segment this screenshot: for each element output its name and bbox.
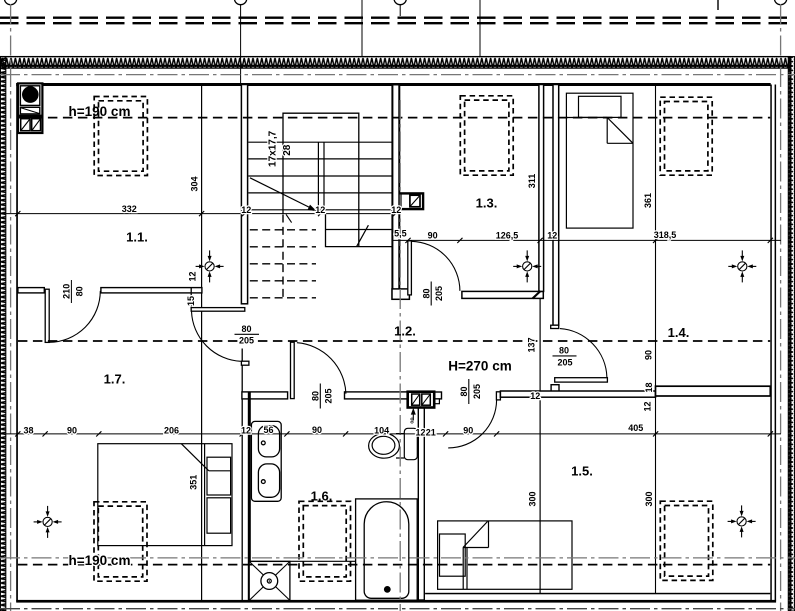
wall between 1.4 and 1.5 [656,386,771,396]
skylight room 1.5 [660,501,713,580]
door label 80/205 (1.7) [235,324,260,346]
svg-text:90: 90 [428,230,438,240]
bottom wall outer line [16,600,776,603]
svg-text:361: 361 [643,193,653,208]
room 1.4 west wall end cap [551,325,559,328]
svg-text:126,5: 126,5 [496,230,519,240]
svg-text:90: 90 [644,350,654,360]
dimension lines [1,211,781,437]
svg-text:104: 104 [374,425,389,435]
WC [369,428,418,459]
svg-text:12: 12 [643,401,653,411]
skylight room 1.3 [460,96,513,175]
bottom wall inner line (right part) [425,593,770,595]
door label 210/80 (1.1) [62,280,85,303]
svg-text:205: 205 [472,384,482,399]
svg-text:205: 205 [239,335,254,345]
dimension line y433.9 [1,433,781,435]
dashed line h=190 top [18,117,770,119]
room 1.3 right wall [539,85,544,292]
svg-text:318,5: 318,5 [654,230,677,240]
skylight room 1.7 [94,502,147,581]
svg-text:405: 405 [628,423,643,433]
door 1.5 jamb [496,392,500,400]
svg-text:1.7.: 1.7. [104,372,126,387]
axis vertical 3 [780,4,782,611]
stair center rail [317,142,319,213]
roof window symbol room 1.5 [728,505,756,537]
roof outline dashed double line [0,0,795,83]
bed room 1.4 [566,93,633,228]
stair break line [357,225,369,246]
door 1.7 landing stub [241,361,249,365]
svg-text:332: 332 [122,204,137,214]
hatched exterior wall band right [788,57,794,611]
svg-text:90: 90 [67,425,77,435]
svg-text:12: 12 [241,205,251,215]
svg-text:351: 351 [189,475,199,490]
svg-text:80: 80 [75,286,85,296]
door 1.1 leaf [45,289,49,342]
svg-text:1.5.: 1.5. [571,464,593,479]
bathroom north wall west piece [242,392,288,399]
skylight room 1.4 [660,97,712,175]
bed room 1.7 [98,444,232,546]
chimney block [18,83,42,133]
door 1.6 leaf [291,342,295,398]
svg-text:311: 311 [527,174,537,189]
bathroom north wall east piece [345,392,408,399]
svg-text:300: 300 [527,491,537,506]
stairwell left wall [241,85,247,304]
svg-text:h=190 cm: h=190 cm [69,104,131,119]
svg-text:205: 205 [323,388,333,403]
door 1.1 swing arc [49,291,100,342]
doors [45,241,607,448]
svg-text:12: 12 [530,391,540,401]
stairwell right wall [392,85,399,299]
door label 80/205 (1.6) [311,384,334,409]
grid tick [717,0,719,10]
svg-text:205: 205 [434,286,444,301]
svg-text:56: 56 [263,425,273,435]
dim extension line 1.7/1.6 [241,349,243,601]
svg-text:304: 304 [190,176,200,191]
wall between corridor and room 1.3 [462,291,543,298]
svg-text:80: 80 [311,391,321,401]
svg-text:12: 12 [188,271,198,281]
right wall outer line [775,85,777,601]
svg-text:1.3.: 1.3. [476,196,498,211]
door 1.4 bottom stub [551,385,559,393]
stair dashed center line [282,215,284,301]
svg-text:12: 12 [415,427,425,437]
svg-text:300: 300 [644,491,654,506]
stair well landing outline [283,113,359,246]
corridor south wall east [500,391,655,397]
corridor wall stub step [434,399,439,404]
bathtub [356,499,418,600]
svg-text:5,5: 5,5 [394,228,407,238]
svg-text:15: 15 [186,296,196,306]
door label 80/205 (1.5) [459,379,482,404]
svg-text:17x17,7: 17x17,7 [268,130,279,167]
dimension line y240.4 [393,239,781,241]
stair dashed treads lower flight [250,230,316,298]
top wall line [16,83,771,86]
stairwell right wall corner box [392,289,409,299]
bathroom east wall [418,408,424,600]
room 1.4 west wall [553,85,559,326]
svg-text:12: 12 [391,205,401,215]
stair treads upper flight [248,142,391,210]
dashed line middle [18,340,770,342]
dashed line h=190 bottom [18,564,770,566]
hatched exterior wall band left [0,57,5,611]
svg-text:H=270 cm: H=270 cm [448,359,511,374]
grid bubble A1 [4,0,16,5]
svg-text:12: 12 [315,205,325,215]
svg-text:1.4.: 1.4. [668,325,690,340]
roof window symbols [34,250,757,538]
door 1.5 swing arc [448,400,496,448]
wall connector at x191 [190,288,192,311]
door 1.3 leaf [408,241,412,295]
ventilation shaft room 1.3 [400,193,423,209]
svg-text:h=190 cm: h=190 cm [69,553,131,568]
svg-text:28: 28 [282,144,293,156]
bed room 1.5 [438,521,572,589]
svg-text:90: 90 [312,425,322,435]
svg-text:12: 12 [241,426,251,436]
roof skylights (double dashed) [94,96,713,581]
dimension ticks [15,211,773,437]
svg-text:137: 137 [527,337,537,352]
door label 80/205 (1.3) [422,282,445,306]
door 1.7 leaf [191,308,245,312]
svg-text:38: 38 [23,425,33,435]
axis vertical 2 [399,100,401,611]
stair lower right box [326,214,392,247]
stair direction arrow [250,178,313,209]
room 1.1 south wall right piece [101,288,202,293]
dim extension line x540 [539,291,541,593]
svg-text:12: 12 [547,231,557,241]
skylight room 1.1 [94,97,147,176]
svg-text:1.2.: 1.2. [394,324,416,339]
shower edge line [249,560,355,562]
vent arrow [412,413,414,421]
corridor wall stub right of vent [434,392,441,399]
axis vertical 1 [10,4,12,611]
right wall inner line [770,85,772,601]
svg-text:80: 80 [241,324,251,334]
roof window symbol room 1.7 [34,506,62,538]
grid tick [479,0,481,57]
door 1.3 swing arc [412,241,460,291]
roof window symbol room 1.4 [728,250,756,282]
double washbasin [251,421,281,501]
door 1.6 swing arc [297,343,346,394]
svg-text:18: 18 [644,382,654,392]
svg-text:80: 80 [422,288,432,298]
dim extension line x655.5 [655,84,657,593]
door 1.4 swing arc [560,329,607,378]
grid bubble A2 [234,0,246,5]
grid tick [361,0,363,57]
door 1.7 swing arc [192,311,241,361]
dimension line y213.6 [1,213,400,215]
roof height dashed lines [18,118,770,565]
axis horizontal A [0,74,795,76]
shower tray [249,561,290,600]
axis horizontal B [0,557,795,559]
roof window symbol room 1.1 [196,250,224,282]
left wall inner line [16,83,18,602]
skylight room 1.6 [299,501,351,581]
dim extension line room 1.1 right [201,83,203,600]
staircase [248,113,391,300]
axis horizontal C [0,608,795,610]
svg-text:80: 80 [459,386,469,396]
room 1.1 south wall left piece [18,288,44,293]
svg-text:205: 205 [557,357,572,367]
grid bubble A3 [394,0,406,5]
svg-text:1.6.: 1.6. [311,489,333,504]
svg-text:80: 80 [559,346,569,356]
ventilation shaft bathroom [408,392,435,421]
svg-text:1.1.: 1.1. [126,230,148,245]
svg-text:206: 206 [164,425,179,435]
door label 80/205 (1.4) [553,346,577,368]
door 1.4 leaf [555,378,608,382]
roof window symbol room 1.3 [513,250,541,282]
grid bubble A4 [774,0,786,5]
svg-text:oo: oo [410,417,416,423]
bathroom west wall black bar [248,392,251,600]
svg-text:21: 21 [426,427,436,437]
svg-text:90: 90 [463,425,473,435]
svg-text:210: 210 [62,284,72,299]
